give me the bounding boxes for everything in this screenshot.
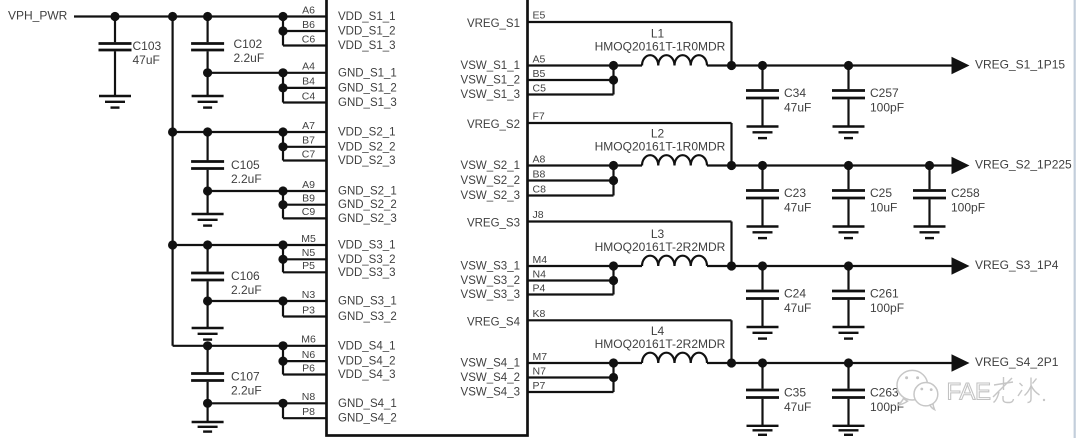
capacitor C102 (207, 17, 209, 43)
svg-text:VREG_S3: VREG_S3 (467, 218, 520, 230)
svg-text:VPH_PWR: VPH_PWR (8, 9, 68, 23)
junction C24 top (758, 261, 767, 270)
svg-text:M6: M6 (301, 334, 316, 346)
wire J8 to inductor output (528, 220, 732, 222)
junction S3 jumper (727, 261, 736, 270)
svg-text:P8: P8 (302, 406, 315, 418)
ground for C261 (833, 326, 865, 328)
svg-text:L3: L3 (651, 227, 665, 241)
ground for C105 (192, 213, 224, 215)
svg-text:GND_S3_1: GND_S3_1 (338, 296, 397, 308)
junction S4 jumper (727, 358, 736, 367)
junction pin N8 (278, 399, 287, 408)
wire rail S2 to inductor (614, 164, 643, 166)
wire VPH_PWR rail (74, 15, 283, 17)
wire pin group M4 stubs (528, 265, 614, 267)
svg-text:GND_S4_2: GND_S4_2 (338, 413, 397, 425)
svg-text:A5: A5 (533, 53, 546, 65)
wire C107 tap to pin N8 (208, 402, 283, 404)
output arrow VREG_S3_1P4 (952, 257, 970, 275)
junction pin B5 (609, 75, 618, 84)
wire pin group M7 stubs (528, 362, 614, 364)
junction C106 tap to GND_S3 (203, 296, 212, 305)
svg-text:A9: A9 (302, 179, 315, 191)
wire rail S4 to inductor (614, 362, 643, 364)
ground for C25 (833, 225, 865, 227)
capacitor C261 (847, 266, 849, 290)
svg-text:C5: C5 (533, 82, 547, 94)
capacitor C24 (761, 266, 763, 290)
ground for C107 (192, 421, 224, 423)
svg-text:B6: B6 (302, 19, 315, 31)
svg-text:VDD_S3_1: VDD_S3_1 (338, 240, 396, 252)
svg-text:FAE: FAE (947, 379, 991, 406)
svg-text:N3: N3 (302, 289, 316, 301)
junction bus at S2 row (168, 127, 177, 136)
wire rail S1 output (707, 64, 953, 66)
svg-text:VSW_S3_1: VSW_S3_1 (461, 260, 520, 272)
screen edge line (1074, 0, 1076, 438)
svg-text:M7: M7 (533, 351, 548, 363)
capacitor C257 (847, 66, 849, 90)
svg-text:A6: A6 (302, 4, 315, 16)
svg-text:VDD_S4_2: VDD_S4_2 (338, 356, 396, 368)
junction pin B7 (278, 142, 287, 151)
svg-text:GND_S2_3: GND_S2_3 (338, 213, 397, 225)
capacitor C263 (847, 363, 849, 389)
svg-text:VREG_S1_1P15: VREG_S1_1P15 (975, 58, 1065, 72)
junction pin A9 (278, 186, 287, 195)
wire pin group A9 stubs (283, 190, 327, 192)
svg-text:47uF: 47uF (784, 400, 811, 414)
wire pin group N3 stubs (283, 300, 327, 302)
junction C105 tap to GND_S2 (203, 186, 212, 195)
svg-text:B8: B8 (533, 168, 546, 180)
capacitor C103 (114, 17, 116, 43)
wire pin group A5 stubs (528, 64, 614, 66)
svg-text:A8: A8 (533, 153, 546, 165)
wire rail S1 to inductor (614, 64, 643, 66)
svg-text:P3: P3 (302, 304, 315, 316)
inductor L1 (642, 55, 707, 65)
junction at C107 top (203, 341, 212, 350)
svg-text:P6: P6 (302, 362, 315, 374)
svg-text:VDD_S3_2: VDD_S3_2 (338, 254, 396, 266)
dot after watermark (1043, 399, 1045, 401)
svg-text:L4: L4 (651, 324, 665, 338)
wire VPH bus vertical (172, 17, 174, 346)
junction C25 top (844, 161, 853, 170)
svg-text:C258: C258 (951, 186, 980, 200)
wire rail S2 output (707, 164, 953, 166)
wire pin group A7 stubs (283, 131, 327, 133)
output arrow VREG_S2_1P225 (952, 157, 970, 175)
junction S1 jumper (727, 61, 736, 70)
junction pin N6 (278, 357, 287, 366)
capacitor C23 (761, 166, 763, 190)
svg-text:VSW_S2_2: VSW_S2_2 (461, 175, 520, 187)
svg-text:L1: L1 (651, 27, 665, 41)
svg-text:VREG_S2_1P225: VREG_S2_1P225 (975, 158, 1072, 172)
svg-text:100pF: 100pF (870, 301, 904, 315)
junction C34 top (758, 61, 767, 70)
wire S3 branch (173, 244, 283, 246)
junction pin A4 (278, 68, 287, 77)
svg-text:B5: B5 (533, 68, 546, 80)
junction pin A8 (609, 161, 618, 170)
svg-text:VSW_S2_3: VSW_S2_3 (461, 190, 520, 202)
junction pin M7 (609, 358, 618, 367)
wire pin group M5 stubs (283, 244, 327, 246)
junction C257 top (844, 61, 853, 70)
svg-text:K8: K8 (533, 308, 546, 320)
svg-text:10uF: 10uF (870, 201, 897, 215)
svg-text:100pF: 100pF (870, 101, 904, 115)
wire rail S3 output (707, 265, 953, 267)
svg-text:47uF: 47uF (784, 301, 811, 315)
svg-text:47uF: 47uF (784, 201, 811, 215)
junction pin M5 (278, 240, 287, 249)
watermark glyph lao (993, 377, 1014, 403)
svg-text:C7: C7 (302, 148, 316, 160)
wire E5 to inductor output (528, 21, 732, 23)
svg-text:VSW_S1_2: VSW_S1_2 (461, 74, 520, 86)
junction bus at S3 row (168, 240, 177, 249)
svg-text:2.2uF: 2.2uF (231, 384, 262, 398)
svg-text:A4: A4 (302, 61, 315, 73)
svg-text:GND_S1_1: GND_S1_1 (338, 67, 397, 79)
svg-text:J8: J8 (533, 209, 544, 221)
svg-text:100pF: 100pF (870, 400, 904, 414)
svg-text:F7: F7 (533, 111, 545, 123)
svg-text:C24: C24 (784, 287, 806, 301)
junction C23 top (758, 161, 767, 170)
svg-text:VSW_S2_1: VSW_S2_1 (461, 160, 520, 172)
junction pin N3 (278, 296, 287, 305)
wire S4 branch (208, 345, 284, 347)
svg-text:GND_S2_2: GND_S2_2 (338, 199, 397, 211)
svg-text:N7: N7 (533, 365, 547, 377)
svg-text:C105: C105 (231, 158, 260, 172)
svg-text:VDD_S4_3: VDD_S4_3 (338, 369, 396, 381)
junction at C106 top (203, 240, 212, 249)
junction pin N4 (609, 276, 618, 285)
junction pin A6 (278, 12, 287, 21)
junction C107 tap to GND_S4 (203, 399, 212, 408)
svg-text:C107: C107 (231, 370, 260, 384)
svg-text:B9: B9 (302, 193, 315, 205)
svg-text:C261: C261 (870, 287, 899, 301)
junction at C102 top (203, 12, 212, 21)
watermark glyph bing (1018, 378, 1040, 403)
svg-text:C106: C106 (231, 269, 260, 283)
capacitor C34 (761, 66, 763, 90)
inductor L2 (642, 155, 707, 165)
svg-text:VDD_S2_2: VDD_S2_2 (338, 141, 396, 153)
svg-text:C102: C102 (234, 37, 263, 51)
junction pin M6 (278, 341, 287, 350)
svg-text:VDD_S4_1: VDD_S4_1 (338, 340, 396, 352)
watermark wechat logo (897, 370, 938, 409)
svg-text:VSW_S1_1: VSW_S1_1 (461, 60, 520, 72)
junction at C103 top (110, 12, 119, 21)
junction C258 top (925, 161, 934, 170)
svg-text:VSW_S1_3: VSW_S1_3 (461, 89, 520, 101)
wire rail S3 to inductor (614, 265, 643, 267)
svg-text:VDD_S2_1: VDD_S2_1 (338, 127, 396, 139)
svg-text:E5: E5 (533, 10, 546, 22)
wire C102 tap to pin A4 (208, 72, 283, 74)
svg-text:C34: C34 (784, 86, 806, 100)
ground for C263 (833, 425, 865, 427)
svg-text:VDD_S1_1: VDD_S1_1 (338, 11, 396, 23)
svg-text:GND_S4_1: GND_S4_1 (338, 398, 397, 410)
capacitor C105 (207, 132, 209, 160)
svg-text:C23: C23 (784, 186, 806, 200)
capacitor C258 (928, 166, 930, 190)
output arrow VREG_S1_1P15 (952, 57, 970, 75)
wire pin group A8 stubs (528, 164, 614, 166)
capacitor C35 (761, 363, 763, 389)
wire pin group A4 stubs (283, 72, 327, 74)
capacitor C106 (207, 245, 209, 272)
svg-text:C6: C6 (302, 33, 316, 45)
svg-text:P4: P4 (533, 282, 546, 294)
junction C261 top (844, 261, 853, 270)
junction pin M4 (609, 261, 618, 270)
svg-text:M5: M5 (301, 233, 316, 245)
junction C263 top (844, 358, 853, 367)
junction pin B9 (278, 200, 287, 209)
svg-text:VREG_S3_1P4: VREG_S3_1P4 (975, 258, 1059, 272)
IC block U1 (327, 0, 528, 436)
wire pin group N8 stubs (283, 402, 327, 404)
ground for C24 (747, 326, 779, 328)
wire C106 tap to pin N3 (208, 300, 283, 302)
wire C105 tap to pin A9 (208, 190, 283, 192)
svg-text:GND_S1_3: GND_S1_3 (338, 97, 397, 109)
wire K8 to inductor output (528, 319, 732, 321)
svg-text:GND_S2_1: GND_S2_1 (338, 186, 397, 198)
svg-text:M4: M4 (533, 254, 548, 266)
svg-text:VREG_S4_2P1: VREG_S4_2P1 (975, 355, 1059, 369)
capacitor C107 (207, 346, 209, 373)
svg-text:VSW_S4_1: VSW_S4_1 (461, 357, 520, 369)
junction pin B4 (278, 83, 287, 92)
svg-text:N8: N8 (302, 391, 316, 403)
wire F7 to inductor output (528, 122, 732, 124)
svg-text:C257: C257 (870, 86, 899, 100)
svg-text:VDD_S1_2: VDD_S1_2 (338, 26, 396, 38)
ground for C102 (192, 95, 224, 97)
svg-text:GND_S3_2: GND_S3_2 (338, 311, 397, 323)
inductor L3 (642, 256, 707, 266)
svg-text:47uF: 47uF (784, 101, 811, 115)
svg-text:100pF: 100pF (951, 201, 985, 215)
svg-text:VREG_S4: VREG_S4 (467, 316, 521, 328)
wire pin group M6 stubs (283, 345, 327, 347)
output arrow VREG_S4_2P1 (952, 354, 970, 372)
wire rail S4 output (707, 362, 953, 364)
svg-text:C35: C35 (784, 386, 806, 400)
svg-text:L2: L2 (651, 127, 665, 141)
svg-text:HMOQ20161T-2R2MDR: HMOQ20161T-2R2MDR (595, 240, 726, 254)
ground for C103 (99, 95, 131, 97)
svg-text:C25: C25 (870, 186, 892, 200)
ground for C106 (192, 327, 224, 329)
junction at bus top (168, 12, 177, 21)
inductor L4 (642, 353, 707, 363)
svg-text:A7: A7 (302, 120, 315, 132)
svg-text:N4: N4 (533, 268, 547, 280)
svg-text:B7: B7 (302, 135, 315, 147)
svg-text:47uF: 47uF (133, 53, 160, 67)
svg-text:VSW_S3_2: VSW_S3_2 (461, 275, 520, 287)
ground for C35 (747, 425, 779, 427)
ground for C34 (747, 125, 779, 127)
junction C102 tap to GND_S1 (203, 68, 212, 77)
svg-text:C9: C9 (302, 206, 316, 218)
wire S2 branch (173, 131, 283, 133)
junction C35 top (758, 358, 767, 367)
junction at C105 top (203, 127, 212, 136)
svg-text:VSW_S4_2: VSW_S4_2 (461, 372, 520, 384)
svg-text:HMOQ20161T-1R0MDR: HMOQ20161T-1R0MDR (595, 40, 726, 54)
svg-text:B4: B4 (302, 76, 315, 88)
svg-text:C4: C4 (302, 90, 316, 102)
svg-text:VDD_S2_3: VDD_S2_3 (338, 155, 396, 167)
svg-text:VDD_S1_3: VDD_S1_3 (338, 40, 396, 52)
svg-text:N5: N5 (302, 247, 316, 259)
svg-text:2.2uF: 2.2uF (234, 51, 265, 65)
svg-text:VDD_S3_3: VDD_S3_3 (338, 267, 396, 279)
capacitor C25 (847, 166, 849, 190)
junction pin B8 (609, 176, 618, 185)
svg-text:GND_S1_2: GND_S1_2 (338, 82, 397, 94)
svg-text:C263: C263 (870, 386, 899, 400)
ground for C258 (914, 225, 946, 227)
svg-text:P7: P7 (533, 380, 546, 392)
junction pin A7 (278, 127, 287, 136)
junction pin A5 (609, 61, 618, 70)
svg-text:C8: C8 (533, 183, 547, 195)
junction pin B6 (278, 26, 287, 35)
svg-text:N6: N6 (302, 349, 316, 361)
svg-text:2.2uF: 2.2uF (231, 283, 262, 297)
ground for C23 (747, 225, 779, 227)
svg-text:C103: C103 (133, 39, 162, 53)
junction pin N5 (278, 255, 287, 264)
svg-text:2.2uF: 2.2uF (231, 172, 262, 186)
svg-text:HMOQ20161T-2R2MDR: HMOQ20161T-2R2MDR (595, 337, 726, 351)
svg-text:HMOQ20161T-1R0MDR: HMOQ20161T-1R0MDR (595, 140, 726, 154)
junction pin N7 (609, 373, 618, 382)
wire pin group A6 stubs (283, 15, 327, 17)
svg-text:P5: P5 (302, 260, 315, 272)
svg-text:VREG_S1: VREG_S1 (467, 18, 520, 30)
svg-text:VSW_S3_3: VSW_S3_3 (461, 289, 520, 301)
junction S2 jumper (727, 161, 736, 170)
ground for C257 (833, 125, 865, 127)
svg-text:VREG_S2: VREG_S2 (467, 119, 520, 131)
svg-text:VSW_S4_3: VSW_S4_3 (461, 386, 520, 398)
